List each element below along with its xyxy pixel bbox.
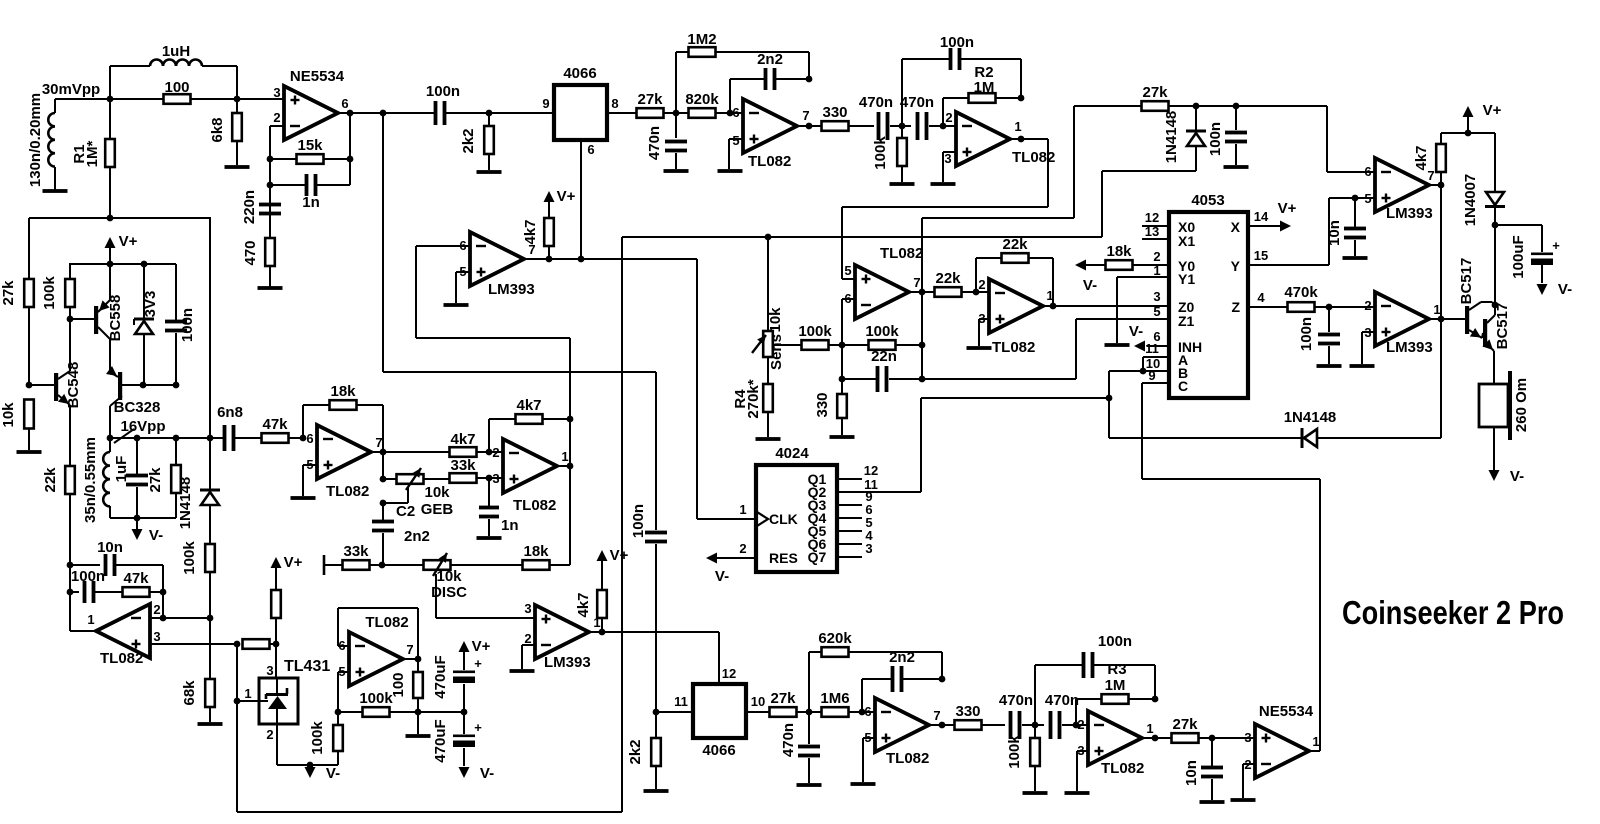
svg-text:TL082: TL082 [748,153,791,170]
wire 22k col to rows [69,565,71,631]
svg-text:1: 1 [739,502,746,517]
wire pin5 ground [303,465,317,496]
svg-text:10k: 10k [436,568,462,585]
junction [67,316,74,323]
svg-text:18k: 18k [1106,243,1132,260]
junction [300,435,307,442]
capacitor 470n b [1045,692,1088,739]
svg-text:5: 5 [844,263,851,278]
wire Q2 to select A/B [921,398,1109,492]
resistor 1M6 [820,690,875,717]
wire [191,98,237,100]
wire U2A out [798,125,822,127]
resistor 1M2 [676,31,809,113]
pin Q7 [808,541,873,565]
resistor 100k h [338,690,418,717]
svg-text:2: 2 [978,277,985,292]
svg-text:22n: 22n [871,348,897,365]
junction [207,435,214,442]
svg-text:33k: 33k [450,457,476,474]
svg-text:100n: 100n [1207,122,1224,156]
wire pin5 [338,672,349,712]
svg-text:22k: 22k [935,270,961,287]
wire collector rail [1494,225,1496,315]
IC 4053 [1169,192,1248,398]
svg-text:V+: V+ [1278,200,1297,217]
resistor 100 [164,79,191,104]
junction [1438,182,1445,189]
svg-text:NE5534: NE5534 [290,68,345,85]
junction [234,96,241,103]
svg-text:3: 3 [273,85,280,100]
ground [225,165,250,169]
capacitor 10n [1183,738,1223,800]
svg-text:620k: 620k [818,630,852,647]
wire [446,96,554,116]
svg-text:CLK: CLK [769,511,798,527]
svg-text:11: 11 [674,694,688,709]
resistor 4k7 fb [489,397,570,452]
wire pin3 ground [1077,751,1088,791]
ground [510,669,535,673]
ground [477,536,502,540]
op-amp U5A TL082 [844,245,923,319]
capacitor 470n a [999,692,1044,739]
junction [899,123,906,130]
wire pin5 ground [456,272,470,303]
junction [567,416,574,423]
resistor 330 [955,703,1006,730]
svg-text:100k: 100k [181,541,198,575]
capacitor 100n (top) [426,83,460,125]
resistor 27k [0,218,34,385]
svg-text:4k7: 4k7 [575,592,592,617]
svg-text:100k: 100k [872,136,889,170]
junction [1492,222,1499,229]
junction [141,261,148,268]
wire raw signal to 4066-2 (long net) [383,113,656,530]
resistor 100k pulldown [872,126,907,182]
svg-text:1: 1 [87,612,94,627]
resistor 100k b [829,323,922,350]
capacitor 100n [1207,106,1247,165]
svg-text:7: 7 [913,275,920,290]
svg-text:Q7: Q7 [808,549,827,565]
wire pin5 [842,278,855,280]
svg-text:4k7: 4k7 [450,431,475,448]
wire x163 [162,565,164,618]
junction [1073,722,1080,729]
wire node row V+ [69,263,176,265]
svg-text:LM393: LM393 [544,654,591,671]
resistor 100k [1006,725,1040,791]
junction [806,709,813,716]
wire pin2 ground [1243,764,1255,798]
diode D4 1N4007 [1462,133,1505,226]
ground [1023,791,1048,795]
wire out [70,630,96,632]
svg-text:TL431: TL431 [284,658,330,675]
op-amp U9B TL082 buffer [338,614,413,686]
svg-text:TL082: TL082 [1101,760,1144,777]
svg-text:Coinseeker 2 Pro: Coinseeker 2 Pro [1342,594,1564,631]
junction [806,123,813,130]
svg-text:BC548: BC548 [65,362,82,409]
svg-text:3: 3 [1244,730,1251,745]
resistor 6k8 [209,99,242,165]
wire pin6 down [581,140,595,259]
svg-text:100n: 100n [1298,317,1315,351]
coil L2 130n/0.20mm [27,93,55,190]
junction [107,96,114,103]
pin 2 Y0 resistor 18k to V- [1075,243,1169,294]
pin Q4 [808,502,873,526]
svg-text:10k: 10k [767,307,784,333]
capacitor 470n [780,712,820,783]
resistor to Vref [243,639,277,649]
ground [718,169,743,173]
wire U7B out [1142,737,1172,739]
resistor 33k disc [324,543,382,570]
ground [17,450,42,454]
junction [461,709,468,716]
op-amp U6B LM393 [1364,292,1440,356]
wire pin3 ground [1362,332,1375,364]
resistor R2 1M [943,64,1021,126]
svg-text:100uF: 100uF [1510,235,1527,278]
junction [1018,95,1025,102]
junction [1233,103,1240,110]
transistor Q4 BC517 [1458,258,1495,338]
junction [67,589,74,596]
capacitor 100uF [1495,225,1560,283]
ground [797,783,822,787]
svg-text:27k: 27k [637,91,663,108]
ground [1224,165,1249,169]
wire y438 diode net [1109,437,1301,439]
svg-text:BC517: BC517 [1494,303,1511,350]
svg-text:10n: 10n [97,539,123,556]
resistor 470 [242,238,275,286]
wire mid rail [418,711,464,713]
svg-text:TL082: TL082 [886,750,929,767]
wire pin3 row [150,643,237,645]
svg-text:1N4148: 1N4148 [1284,409,1337,426]
svg-text:1M*: 1M* [84,141,101,168]
op-amp U3A TL082 [306,425,382,500]
junction [1140,368,1147,375]
junction [546,256,553,263]
svg-text:V-: V- [1129,323,1143,340]
junction [107,215,114,222]
wire net x622 (ref mid rail) [237,237,622,812]
svg-text:2: 2 [1153,249,1160,264]
svg-text:2: 2 [273,110,280,125]
svg-text:27k: 27k [770,690,796,707]
ground [477,170,502,174]
svg-text:C2: C2 [396,503,415,520]
wire U2B out to TL082-C +in [842,139,1048,279]
trimmer 10k Sens [752,237,785,370]
pin 12 X0 [1142,210,1169,226]
svg-text:2n2: 2n2 [404,528,430,545]
wire pin8 [607,96,636,113]
capacitor 470n [646,113,687,169]
svg-text:7: 7 [375,435,382,450]
svg-text:2: 2 [153,602,160,617]
junction [653,709,660,716]
ground [756,437,781,441]
ground [664,169,689,173]
svg-text:X1: X1 [1178,233,1195,249]
svg-text:100k: 100k [41,276,58,310]
pin Q3 [808,489,873,513]
svg-text:1: 1 [1046,288,1053,303]
junction [207,615,214,622]
junction [1018,136,1025,143]
svg-text:100n: 100n [71,568,105,585]
svg-text:10n: 10n [1326,220,1343,246]
svg-text:2: 2 [1077,717,1084,732]
wire out to 4k7 [383,451,449,453]
svg-text:10: 10 [751,694,765,709]
svg-text:100n: 100n [630,504,647,538]
svg-text:1: 1 [244,686,251,701]
wire C to output fb [1142,383,1320,751]
wire x237 to bottom rail [236,644,238,812]
svg-text:V+: V+ [557,188,576,205]
svg-text:470k: 470k [1284,284,1318,301]
wire pin5 ground [863,738,875,782]
junction [267,182,274,189]
wire 27k top feed [922,106,1074,292]
svg-text:4k7: 4k7 [1413,145,1430,170]
junction [307,762,314,769]
svg-text:V-: V- [326,765,340,782]
svg-text:V-: V- [1083,277,1097,294]
op-amp U1 NE5534 [273,68,348,140]
resistor 330 [814,379,847,435]
power V- [459,765,495,782]
wire to 4066 pin12 [719,632,736,684]
capacitor 100n fb [1035,633,1155,725]
svg-text:6: 6 [732,105,739,120]
wire [382,564,423,566]
ground [1350,364,1375,368]
junction [939,676,946,683]
resistor 18k fb [303,383,383,452]
svg-text:V+: V+ [1483,102,1502,119]
junction [973,289,980,296]
trimmer 10k DISC [424,553,524,618]
resistor 27k [770,690,823,717]
junction [134,515,141,522]
svg-text:130n/0.20mm: 130n/0.20mm [27,93,44,187]
svg-text:12: 12 [1145,210,1159,225]
svg-text:14: 14 [1254,209,1269,224]
svg-text:8: 8 [611,96,618,111]
svg-text:1uH: 1uH [162,43,190,60]
svg-text:6: 6 [1364,164,1371,179]
svg-text:1: 1 [1146,721,1153,736]
power V- [305,765,341,782]
junction [380,449,387,456]
pin RES [706,541,798,585]
capacitor 470uF bottom [432,712,482,766]
pin 14 X to V+ [1248,200,1297,232]
op-amp U4A LM393 [459,232,535,298]
diode D3 1N4148 [1163,106,1206,171]
wire TL431 ref [275,644,277,678]
junction [1438,316,1445,323]
pin 10 B [1143,356,1169,371]
svg-text:16Vpp: 16Vpp [120,418,165,435]
svg-text:35n/0.55mm: 35n/0.55mm [82,437,99,523]
transistor Q2 BC328 [106,366,176,438]
junction [1465,130,1472,137]
svg-text:330: 330 [955,703,980,720]
svg-text:470: 470 [242,240,259,265]
svg-text:27k: 27k [1172,716,1198,733]
svg-text:15k: 15k [297,137,323,154]
pin 5 Z1 [1153,304,1160,319]
svg-text:6: 6 [587,142,594,157]
ground [890,182,915,186]
pin 11 A [1143,341,1169,371]
svg-text:100k: 100k [1006,735,1023,769]
resistor R3 1M [1076,661,1155,725]
power V- [1489,427,1525,485]
ground [830,435,855,439]
wire pin10 [746,694,769,712]
ground [1105,343,1130,347]
svg-text:18k: 18k [330,383,356,400]
resistor 27k tank [147,438,181,518]
wire U3A out [371,451,383,453]
svg-text:NE5534: NE5534 [1259,703,1314,720]
svg-text:100n: 100n [940,34,974,51]
resistor 22k [42,466,75,565]
ground [291,496,316,500]
op-amp U2B TL082 [944,110,1055,166]
svg-text:Z: Z [1231,299,1240,315]
capacitor 1n [270,113,350,211]
wire Sens wiper row [773,344,801,346]
svg-text:1M: 1M [974,79,995,96]
op-amp U5B TL082 [978,277,1053,356]
resistor 47k [262,416,304,443]
wire pin6 loop [416,246,570,338]
junction [765,234,772,241]
svg-text:33k: 33k [343,543,369,560]
wire 1N4148 top return [1102,171,1196,237]
ground [198,722,223,726]
svg-text:V+: V+ [472,638,491,655]
ground mid [406,712,431,738]
junction [673,110,680,117]
wire comparator outputs down [1440,185,1442,438]
ground [1065,791,1090,795]
svg-text:2n2: 2n2 [757,51,783,68]
capacitor 470n a [859,94,911,140]
op-amp U6A LM393 [1364,158,1434,222]
svg-text:1M: 1M [1105,677,1126,694]
pin Q2 [808,477,921,500]
pin 4 Z [1248,290,1287,307]
resistor 47k [123,570,164,597]
svg-text:1M2: 1M2 [687,31,716,48]
svg-text:9: 9 [542,96,549,111]
capacitor 470uF top [432,638,491,712]
svg-text:27k: 27k [147,467,164,493]
svg-text:470uF: 470uF [432,655,449,698]
wire net y237 [622,236,1102,238]
svg-text:470n: 470n [900,94,934,111]
svg-text:2n2: 2n2 [889,649,915,666]
resistor 68k [181,618,215,722]
junction [140,382,147,389]
transistor Q1 BC558 [70,264,124,372]
op-amp U8 NE5534 [1244,703,1319,778]
wire U7A out [929,724,955,726]
ground [967,346,992,350]
pin Q1 [808,463,879,487]
junction [1326,304,1333,311]
op-amp U7B TL082 [1077,711,1153,777]
svg-text:7: 7 [406,642,413,657]
svg-text:11: 11 [1145,341,1159,356]
svg-text:C: C [1178,378,1188,394]
capacitor 6n8 [217,404,262,451]
svg-text:47k: 47k [262,416,288,433]
svg-text:2: 2 [945,110,952,125]
svg-text:4k7: 4k7 [522,219,539,244]
wire tank bottom [110,517,176,519]
junction [335,709,342,716]
resistor 4k7 [450,431,504,457]
junction [1352,195,1359,202]
op-amp U7A TL082 [864,698,940,767]
pin 15 Y [1248,198,1329,265]
svg-text:LM393: LM393 [1386,205,1433,222]
svg-text:10k: 10k [0,402,17,428]
svg-text:TL082: TL082 [992,339,1035,356]
junction [599,629,606,636]
svg-text:6: 6 [341,96,348,111]
svg-text:1: 1 [1014,119,1021,134]
svg-text:TL082: TL082 [365,614,408,631]
capacitor 100n fb [902,34,1021,126]
junction [26,382,33,389]
junction [134,435,141,442]
svg-text:1N4148: 1N4148 [1163,111,1180,164]
capacitor 100n [70,568,123,603]
resistor 2k2 [460,113,494,170]
resistor 2k2 [627,712,661,789]
svg-text:100k: 100k [865,323,899,340]
junction [919,376,926,383]
svg-text:47k: 47k [123,570,149,587]
pin 3 Z0 [1153,289,1160,304]
junction [486,475,493,482]
junction [160,589,167,596]
capacitor 100n (mid) [630,504,667,711]
svg-text:TL082: TL082 [513,497,556,514]
diode D2 1N4148 [177,438,220,545]
svg-text:4066: 4066 [563,65,596,82]
junction [415,656,422,663]
svg-text:100: 100 [164,79,189,96]
